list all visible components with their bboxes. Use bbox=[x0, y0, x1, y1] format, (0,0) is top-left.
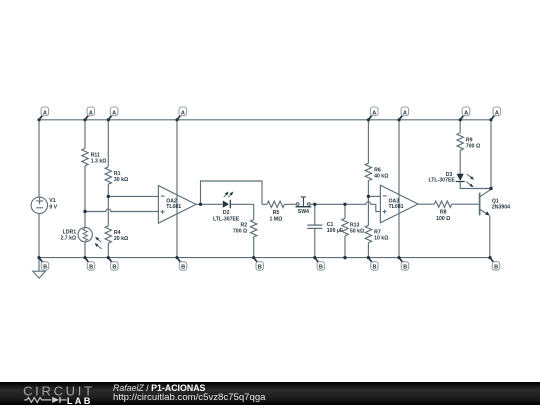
resistor R2 bbox=[251, 220, 257, 237]
wire R1 column bbox=[107, 120, 109, 226]
node A at Q1 collector column bbox=[489, 107, 500, 121]
wire SW4 to OA3 + input (hop over R6 column, jog down) bbox=[310, 202, 380, 212]
svg-text:100 µF: 100 µF bbox=[327, 228, 343, 234]
svg-text:R11: R11 bbox=[91, 153, 100, 159]
resistor R5 bbox=[267, 201, 284, 207]
node B at OA2 V- pin bbox=[175, 256, 186, 271]
junction D3 cathode Q1 collector bbox=[489, 187, 492, 190]
wire D2 to R2 bbox=[230, 203, 253, 205]
node A at OA3 V+ pin bbox=[397, 107, 408, 121]
svg-text:R4: R4 bbox=[114, 230, 121, 236]
svg-text:9 V: 9 V bbox=[49, 204, 57, 210]
node A at R6 column bbox=[367, 107, 378, 121]
junction OA2 output node bbox=[199, 203, 202, 206]
svg-text:R1: R1 bbox=[114, 171, 121, 177]
wire bypass over D2 bbox=[201, 181, 263, 204]
wire OA2 output to D2 bbox=[196, 203, 223, 205]
switch SW4 bbox=[296, 197, 312, 207]
wire R13 column bbox=[344, 204, 346, 257]
svg-text:700 Ω: 700 Ω bbox=[233, 228, 247, 234]
resistor R13 bbox=[342, 218, 348, 235]
node A at V1 column bbox=[37, 107, 48, 121]
wire R11 column bbox=[84, 120, 86, 228]
junction R13 top bbox=[343, 203, 346, 206]
LED D2 bbox=[223, 192, 234, 209]
svg-text:20 kΩ: 20 kΩ bbox=[114, 236, 128, 242]
footer title text bbox=[113, 384, 266, 403]
wire top rail net A bbox=[39, 119, 491, 121]
node B at R4 column bbox=[107, 256, 118, 271]
wire V1 column bbox=[38, 120, 40, 258]
resistor R11 bbox=[82, 148, 88, 165]
svg-text:40 kΩ: 40 kΩ bbox=[374, 174, 388, 180]
svg-text:TL081: TL081 bbox=[166, 204, 181, 210]
wire OA2 power column bbox=[176, 120, 178, 258]
svg-text:R9: R9 bbox=[466, 137, 473, 143]
capacitor C1 bbox=[307, 225, 322, 228]
op-amp OA2 bbox=[158, 186, 196, 224]
wire non-inverting input OA2 (hop over R1 column) bbox=[85, 209, 158, 212]
node A at OA2 V+ pin bbox=[175, 107, 186, 121]
svg-text:100 Ω: 100 Ω bbox=[436, 216, 450, 222]
resistor R7 bbox=[365, 225, 371, 242]
ground bbox=[33, 258, 46, 279]
node B at OA3 V- pin bbox=[397, 256, 408, 271]
svg-text:R7: R7 bbox=[374, 229, 381, 235]
junction R1 R4 to OA2 inverting input bbox=[107, 195, 110, 198]
junction R11 LDR1 to OA2 non-inverting input bbox=[83, 210, 86, 213]
svg-text:R5: R5 bbox=[273, 210, 280, 216]
LED D3 bbox=[456, 174, 475, 187]
svg-text:LTL-307EE: LTL-307EE bbox=[428, 177, 455, 183]
svg-text:LTL-307EE: LTL-307EE bbox=[213, 216, 240, 222]
svg-text:2.7 kΩ: 2.7 kΩ bbox=[60, 236, 76, 242]
wire R2 column bbox=[253, 204, 255, 219]
component labels bbox=[49, 137, 510, 242]
svg-text:2N3904: 2N3904 bbox=[492, 204, 510, 210]
LDR1 photoresistor bbox=[78, 227, 102, 248]
svg-text:TL081: TL081 bbox=[389, 204, 404, 210]
footer bar bbox=[0, 382, 540, 405]
node A at R1 column bbox=[107, 107, 118, 121]
svg-text:R13: R13 bbox=[350, 222, 360, 228]
node B at C1 column bbox=[313, 256, 324, 271]
wire R5 leads bbox=[262, 203, 297, 205]
resistor R8 bbox=[434, 201, 451, 207]
wire LDR1 to bottom rail bbox=[84, 242, 86, 258]
svg-text:50 kΩ: 50 kΩ bbox=[350, 228, 364, 234]
wire bottom rail net B bbox=[39, 257, 490, 259]
svg-text:D2: D2 bbox=[223, 210, 230, 216]
svg-text:LAB: LAB bbox=[67, 395, 93, 405]
junction C1 top bbox=[313, 203, 316, 206]
svg-text:R6: R6 bbox=[374, 167, 381, 173]
svg-text:700 Ω: 700 Ω bbox=[466, 144, 480, 150]
resistor R4 bbox=[105, 226, 111, 243]
node B at Q1 emitter column bbox=[488, 256, 499, 271]
node B at R7 column bbox=[367, 256, 378, 271]
wire R6 R7 column bbox=[367, 120, 369, 258]
svg-text:10 kΩ: 10 kΩ bbox=[374, 236, 388, 242]
wire D3 cathode to Q1 collector junction bbox=[460, 181, 491, 188]
voltage source V1 bbox=[31, 197, 47, 213]
resistor R9 bbox=[457, 133, 463, 150]
transistor Q1 bbox=[480, 189, 491, 258]
svg-text:R8: R8 bbox=[440, 210, 447, 216]
resistor R1 bbox=[105, 167, 111, 184]
node B at V1 ground column bbox=[37, 256, 48, 271]
wire R4 to bottom rail bbox=[107, 243, 109, 257]
svg-text:30 kΩ: 30 kΩ bbox=[114, 177, 128, 183]
svg-text:1.3 kΩ: 1.3 kΩ bbox=[91, 159, 107, 165]
wire collector column bbox=[490, 120, 492, 189]
wire OA3 output to R8 bbox=[418, 203, 434, 205]
node A at R9 column bbox=[459, 107, 470, 121]
svg-text:V1: V1 bbox=[49, 198, 55, 204]
op-amp OA3 bbox=[380, 185, 418, 223]
resistor R6 bbox=[365, 163, 371, 180]
wire R9 column bbox=[459, 120, 461, 174]
circuitlab logo bbox=[0, 382, 110, 406]
wire inverting input OA3 bbox=[368, 195, 380, 197]
wire OA3 power column bbox=[398, 120, 400, 258]
wire C1 column bbox=[314, 204, 316, 257]
svg-text:LDR1: LDR1 bbox=[63, 230, 77, 236]
node B at R2 column bbox=[252, 256, 263, 271]
svg-text:1 MΩ: 1 MΩ bbox=[269, 216, 282, 222]
wire R8 to Q1 base bbox=[452, 203, 479, 205]
junction R6 R7 divider to OA3 inverting input bbox=[367, 195, 370, 198]
node B at LDR1 column bbox=[83, 256, 94, 271]
svg-text:SW4: SW4 bbox=[298, 209, 309, 215]
node A at R11 column bbox=[83, 107, 94, 121]
junction R13 bottom rail bbox=[343, 256, 346, 259]
wire inverting input OA2 bbox=[108, 195, 158, 197]
wire R2 to bottom rail bbox=[253, 237, 255, 258]
